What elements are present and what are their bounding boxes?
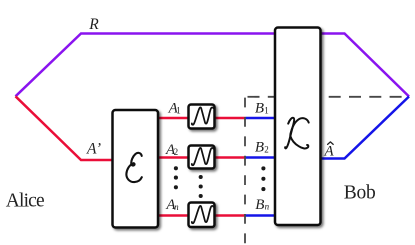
wire A-hat (blue, K to Bob) — [319, 97, 409, 159]
hat of A-hat — [328, 142, 334, 145]
dots column 3 (between dashed line and K) — [261, 166, 265, 191]
box N1 (channel) — [189, 105, 215, 129]
wire B2 (blue) — [246, 156, 278, 159]
svg-text:An: An — [165, 197, 179, 213]
svg-text:Bn: Bn — [255, 197, 269, 213]
wire An (red) — [156, 214, 246, 217]
wire A1 (red) — [156, 117, 246, 120]
svg-text:A: A — [324, 143, 335, 159]
wire Bn (blue) — [246, 214, 278, 217]
dots column 1 (between E and N) — [174, 166, 178, 189]
svg-text:B1: B1 — [255, 100, 269, 116]
wire A' (red, Alice input to E) — [16, 96, 115, 160]
dashed boundary vertical — [244, 97, 246, 245]
box N2 (channel) — [189, 146, 215, 169]
dots column 2 (between N2 and N3) — [199, 175, 203, 198]
svg-text:B2: B2 — [255, 140, 269, 156]
box N3 (channel) — [189, 203, 215, 228]
wire R (purple) — [16, 34, 410, 97]
glyph script-N in box N2 — [192, 148, 213, 165]
box E (encoder) — [113, 110, 159, 228]
dashed boundary horizontal — [245, 96, 407, 98]
glyph script-N in box N1 — [192, 107, 213, 124]
svg-text:A1: A1 — [168, 100, 181, 116]
svg-text:A’: A’ — [86, 140, 101, 157]
glyph script-K in box K — [285, 118, 309, 149]
wire B1 (blue) — [246, 117, 278, 120]
glyph script-N in box N3 — [192, 206, 213, 223]
wire A2 (red) — [156, 156, 246, 159]
svg-text:Bob: Bob — [344, 183, 376, 204]
glyph script-E in box E — [126, 153, 141, 182]
svg-text:A2: A2 — [165, 142, 178, 158]
box K (decoder) — [275, 28, 321, 226]
svg-text:Alice: Alice — [6, 191, 44, 212]
svg-text:R: R — [88, 16, 99, 33]
